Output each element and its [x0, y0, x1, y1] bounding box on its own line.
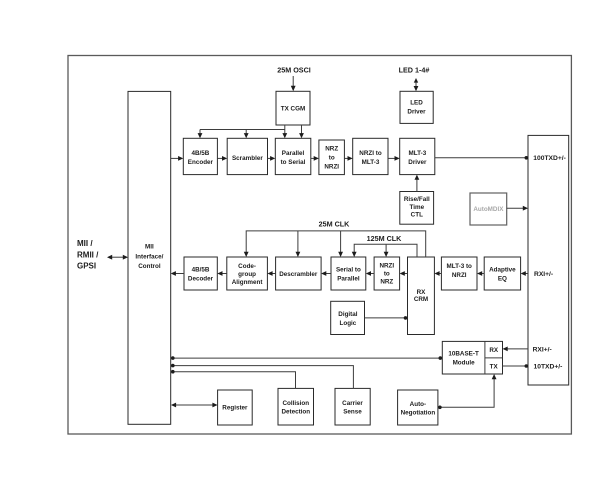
svg-text:NRZI: NRZI — [452, 272, 467, 279]
svg-text:Driver: Driver — [407, 108, 426, 115]
svg-text:MLT-3: MLT-3 — [362, 159, 380, 166]
svg-text:Parallel: Parallel — [337, 275, 360, 282]
svg-text:RXI+/-: RXI+/- — [533, 347, 552, 354]
svg-text:to: to — [384, 270, 390, 277]
svg-text:125M CLK: 125M CLK — [367, 234, 403, 243]
svg-text:Scrambler: Scrambler — [232, 155, 263, 162]
svg-text:100TXD+/-: 100TXD+/- — [533, 155, 566, 162]
svg-text:group: group — [238, 271, 256, 278]
svg-text:MLT-3: MLT-3 — [409, 150, 427, 157]
svg-text:Interface/: Interface/ — [135, 253, 163, 260]
svg-text:Detection: Detection — [281, 408, 310, 415]
svg-text:RMII /: RMII / — [77, 250, 99, 259]
svg-text:4B/5B: 4B/5B — [192, 266, 210, 273]
svg-text:Adaptive: Adaptive — [489, 266, 516, 273]
svg-text:EQ: EQ — [498, 275, 507, 282]
svg-text:MII /: MII / — [77, 239, 93, 248]
svg-text:Control: Control — [138, 263, 161, 270]
svg-text:Alignment: Alignment — [232, 279, 264, 286]
svg-text:Encoder: Encoder — [188, 159, 214, 166]
svg-text:RX: RX — [489, 347, 499, 354]
svg-text:LED: LED — [410, 99, 423, 106]
svg-text:Digital: Digital — [338, 311, 357, 318]
svg-text:NRZ: NRZ — [380, 278, 393, 285]
svg-text:Auto-: Auto- — [410, 401, 426, 408]
svg-text:NRZI: NRZI — [324, 163, 339, 170]
svg-text:AutoMDIX: AutoMDIX — [473, 206, 504, 213]
svg-text:NRZI: NRZI — [379, 262, 394, 269]
svg-text:TX CGM: TX CGM — [281, 105, 306, 112]
svg-text:RXI+/-: RXI+/- — [534, 271, 553, 278]
svg-text:to Serial: to Serial — [281, 159, 306, 166]
svg-text:Negotiation: Negotiation — [401, 409, 436, 416]
svg-text:GPSI: GPSI — [77, 261, 96, 270]
svg-text:Collision: Collision — [283, 400, 310, 407]
svg-text:25M OSCI: 25M OSCI — [277, 66, 311, 75]
svg-text:NRZI to: NRZI to — [359, 150, 382, 157]
svg-text:Rise/Fall: Rise/Fall — [404, 196, 430, 203]
svg-text:Descrambler: Descrambler — [279, 271, 318, 278]
svg-text:CRM: CRM — [414, 296, 428, 303]
svg-text:Parallel: Parallel — [282, 150, 305, 157]
svg-text:Decoder: Decoder — [188, 275, 214, 282]
svg-text:Logic: Logic — [340, 320, 357, 327]
svg-text:MII: MII — [145, 243, 154, 250]
svg-text:25M CLK: 25M CLK — [319, 220, 351, 229]
svg-text:TX: TX — [490, 363, 499, 370]
svg-text:10BASE-T: 10BASE-T — [448, 350, 479, 357]
svg-text:Time: Time — [410, 204, 425, 211]
svg-text:Carrier: Carrier — [342, 400, 363, 407]
svg-text:NRZ: NRZ — [325, 145, 338, 152]
svg-text:4B/5B: 4B/5B — [191, 150, 209, 157]
svg-text:CTL: CTL — [411, 212, 423, 219]
svg-text:Register: Register — [222, 405, 248, 412]
svg-text:to: to — [329, 154, 335, 161]
svg-text:LED 1-4#: LED 1-4# — [399, 66, 430, 75]
svg-text:Sense: Sense — [343, 408, 362, 415]
svg-text:10TXD+/-: 10TXD+/- — [534, 364, 563, 371]
svg-text:Code-: Code- — [238, 263, 256, 270]
svg-text:Driver: Driver — [408, 159, 427, 166]
svg-text:RX: RX — [417, 289, 427, 296]
svg-text:Serial to: Serial to — [336, 266, 361, 273]
svg-text:MLT-3 to: MLT-3 to — [446, 263, 472, 270]
svg-text:Module: Module — [453, 359, 476, 366]
